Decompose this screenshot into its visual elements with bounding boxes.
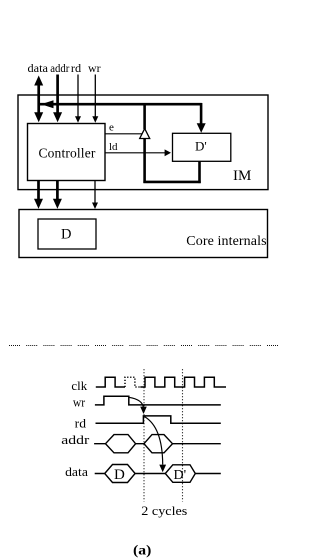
svg-text:wr: wr (73, 396, 85, 410)
svg-text:IM: IM (233, 168, 251, 184)
cursor line 1 (143, 369, 145, 501)
svg-text:D: D (114, 467, 125, 483)
wire data to core (37, 181, 40, 201)
wire addr bus (56, 75, 59, 116)
addr waveform (94, 443, 221, 445)
svg-text:wr: wr (88, 61, 101, 75)
wire ld (controller to D' load) (105, 152, 166, 154)
IM box (18, 95, 268, 190)
wire e (controller to buffer enable) (105, 133, 142, 135)
wire wr (94, 75, 96, 118)
controller U1 (28, 124, 106, 181)
svg-text:e: e (109, 122, 114, 134)
addr valid hexagon 1 (106, 435, 136, 453)
register D' (173, 133, 231, 161)
svg-text:(a): (a) (133, 543, 152, 558)
wire control to core (94, 181, 96, 204)
svg-text:Core internals: Core internals (186, 234, 266, 249)
dashed separator (9, 345, 278, 347)
wire D' input from data return (200, 103, 203, 126)
cursor line 2 (182, 369, 184, 501)
wire loop bottom (143, 181, 200, 184)
svg-text:D: D (61, 226, 71, 242)
arrow rd rise to data D' (144, 417, 162, 465)
data waveform (95, 473, 221, 475)
wr waveform (95, 396, 221, 405)
core internals box (19, 210, 268, 258)
tri-state buffer (140, 129, 150, 139)
svg-text:addr: addr (50, 61, 69, 75)
wire D' output down to loop (198, 162, 201, 184)
wire addr to core (56, 181, 59, 201)
wire buffer output up to data return (143, 103, 146, 129)
wire data return (from buffer to data pin) (38, 103, 202, 106)
svg-text:addr: addr (61, 433, 89, 447)
clk waveform cont (140, 377, 226, 387)
svg-text:clk: clk (71, 379, 88, 393)
addr valid hexagon 2 (144, 435, 173, 453)
svg-text:data: data (28, 61, 49, 75)
svg-text:rd: rd (75, 416, 86, 430)
wire data bus (bidirectional) (37, 80, 40, 115)
svg-text:Controller: Controller (39, 146, 96, 161)
svg-text:data: data (65, 465, 88, 479)
svg-text:2 cycles: 2 cycles (141, 503, 187, 518)
rd waveform (96, 416, 221, 423)
wire rd (77, 75, 79, 118)
svg-text:ld: ld (109, 141, 118, 153)
svg-text:rd: rd (71, 61, 81, 75)
wire buffer input from loop (143, 139, 146, 183)
data valid hexagon D' (165, 465, 195, 483)
data valid hexagon D (105, 465, 135, 483)
arrow wr fall to rd rise (129, 397, 144, 407)
clk waveform (96, 377, 125, 387)
svg-text:D': D' (195, 139, 207, 154)
svg-text:D': D' (174, 468, 187, 483)
register D (38, 219, 96, 249)
clk omitted cycle (dotted) (125, 377, 140, 387)
